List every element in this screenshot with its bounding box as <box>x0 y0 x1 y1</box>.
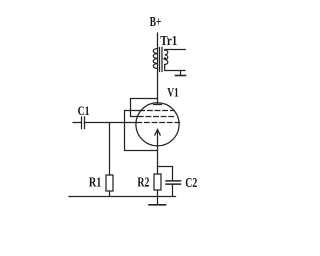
ground (transformer secondary) <box>176 71 186 76</box>
svg-text:C2: C2 <box>185 176 197 191</box>
wire: ground rail <box>69 196 176 198</box>
wire: cathode lead down to R2 <box>157 130 159 175</box>
wire: cathode to C2 <box>158 167 173 181</box>
V1 plate <box>154 104 162 106</box>
svg-text:C1: C1 <box>78 103 90 118</box>
wire: screen grid to plate tie <box>131 99 158 117</box>
capacitor C1 <box>73 117 85 129</box>
V1 envelope <box>136 103 179 146</box>
wire: secondary top lead <box>165 49 186 52</box>
wire: C2 to ground rail <box>172 185 174 197</box>
tube V1 <box>136 103 180 146</box>
svg-text:R1: R1 <box>89 175 102 190</box>
resistor R1 <box>106 175 113 197</box>
svg-text:R2: R2 <box>137 176 149 191</box>
Tr1 primary winding <box>153 49 157 69</box>
capacitor C2 <box>158 167 181 197</box>
C1 plates <box>81 117 83 129</box>
Tr1 primary cusp dots <box>155 53 157 55</box>
wire: B+ feed down to V1 plate <box>157 33 159 105</box>
svg-text:B+: B+ <box>150 14 162 29</box>
resistor R2 <box>154 174 161 197</box>
V1 cathode arrow <box>155 130 160 136</box>
Tr1 core <box>159 48 161 72</box>
V1 control grid <box>137 122 180 124</box>
V1 suppressor grid <box>140 110 174 112</box>
wire: grid to R1 <box>109 123 111 176</box>
wire: grid input <box>85 122 137 124</box>
wire: secondary bottom lead <box>165 65 185 71</box>
V1 screen grid <box>139 116 175 118</box>
svg-text:V1: V1 <box>167 85 179 100</box>
Tr1 secondary winding <box>165 50 168 64</box>
ground (main) <box>149 197 166 205</box>
wire: suppressor grid to cathode tie <box>125 111 158 151</box>
transformer Tr1 <box>153 48 185 72</box>
svg-text:Tr1: Tr1 <box>160 34 177 49</box>
C2 plates <box>166 180 181 182</box>
wire: input lead <box>73 122 82 124</box>
Tr1 secondary phase dot <box>164 57 167 60</box>
